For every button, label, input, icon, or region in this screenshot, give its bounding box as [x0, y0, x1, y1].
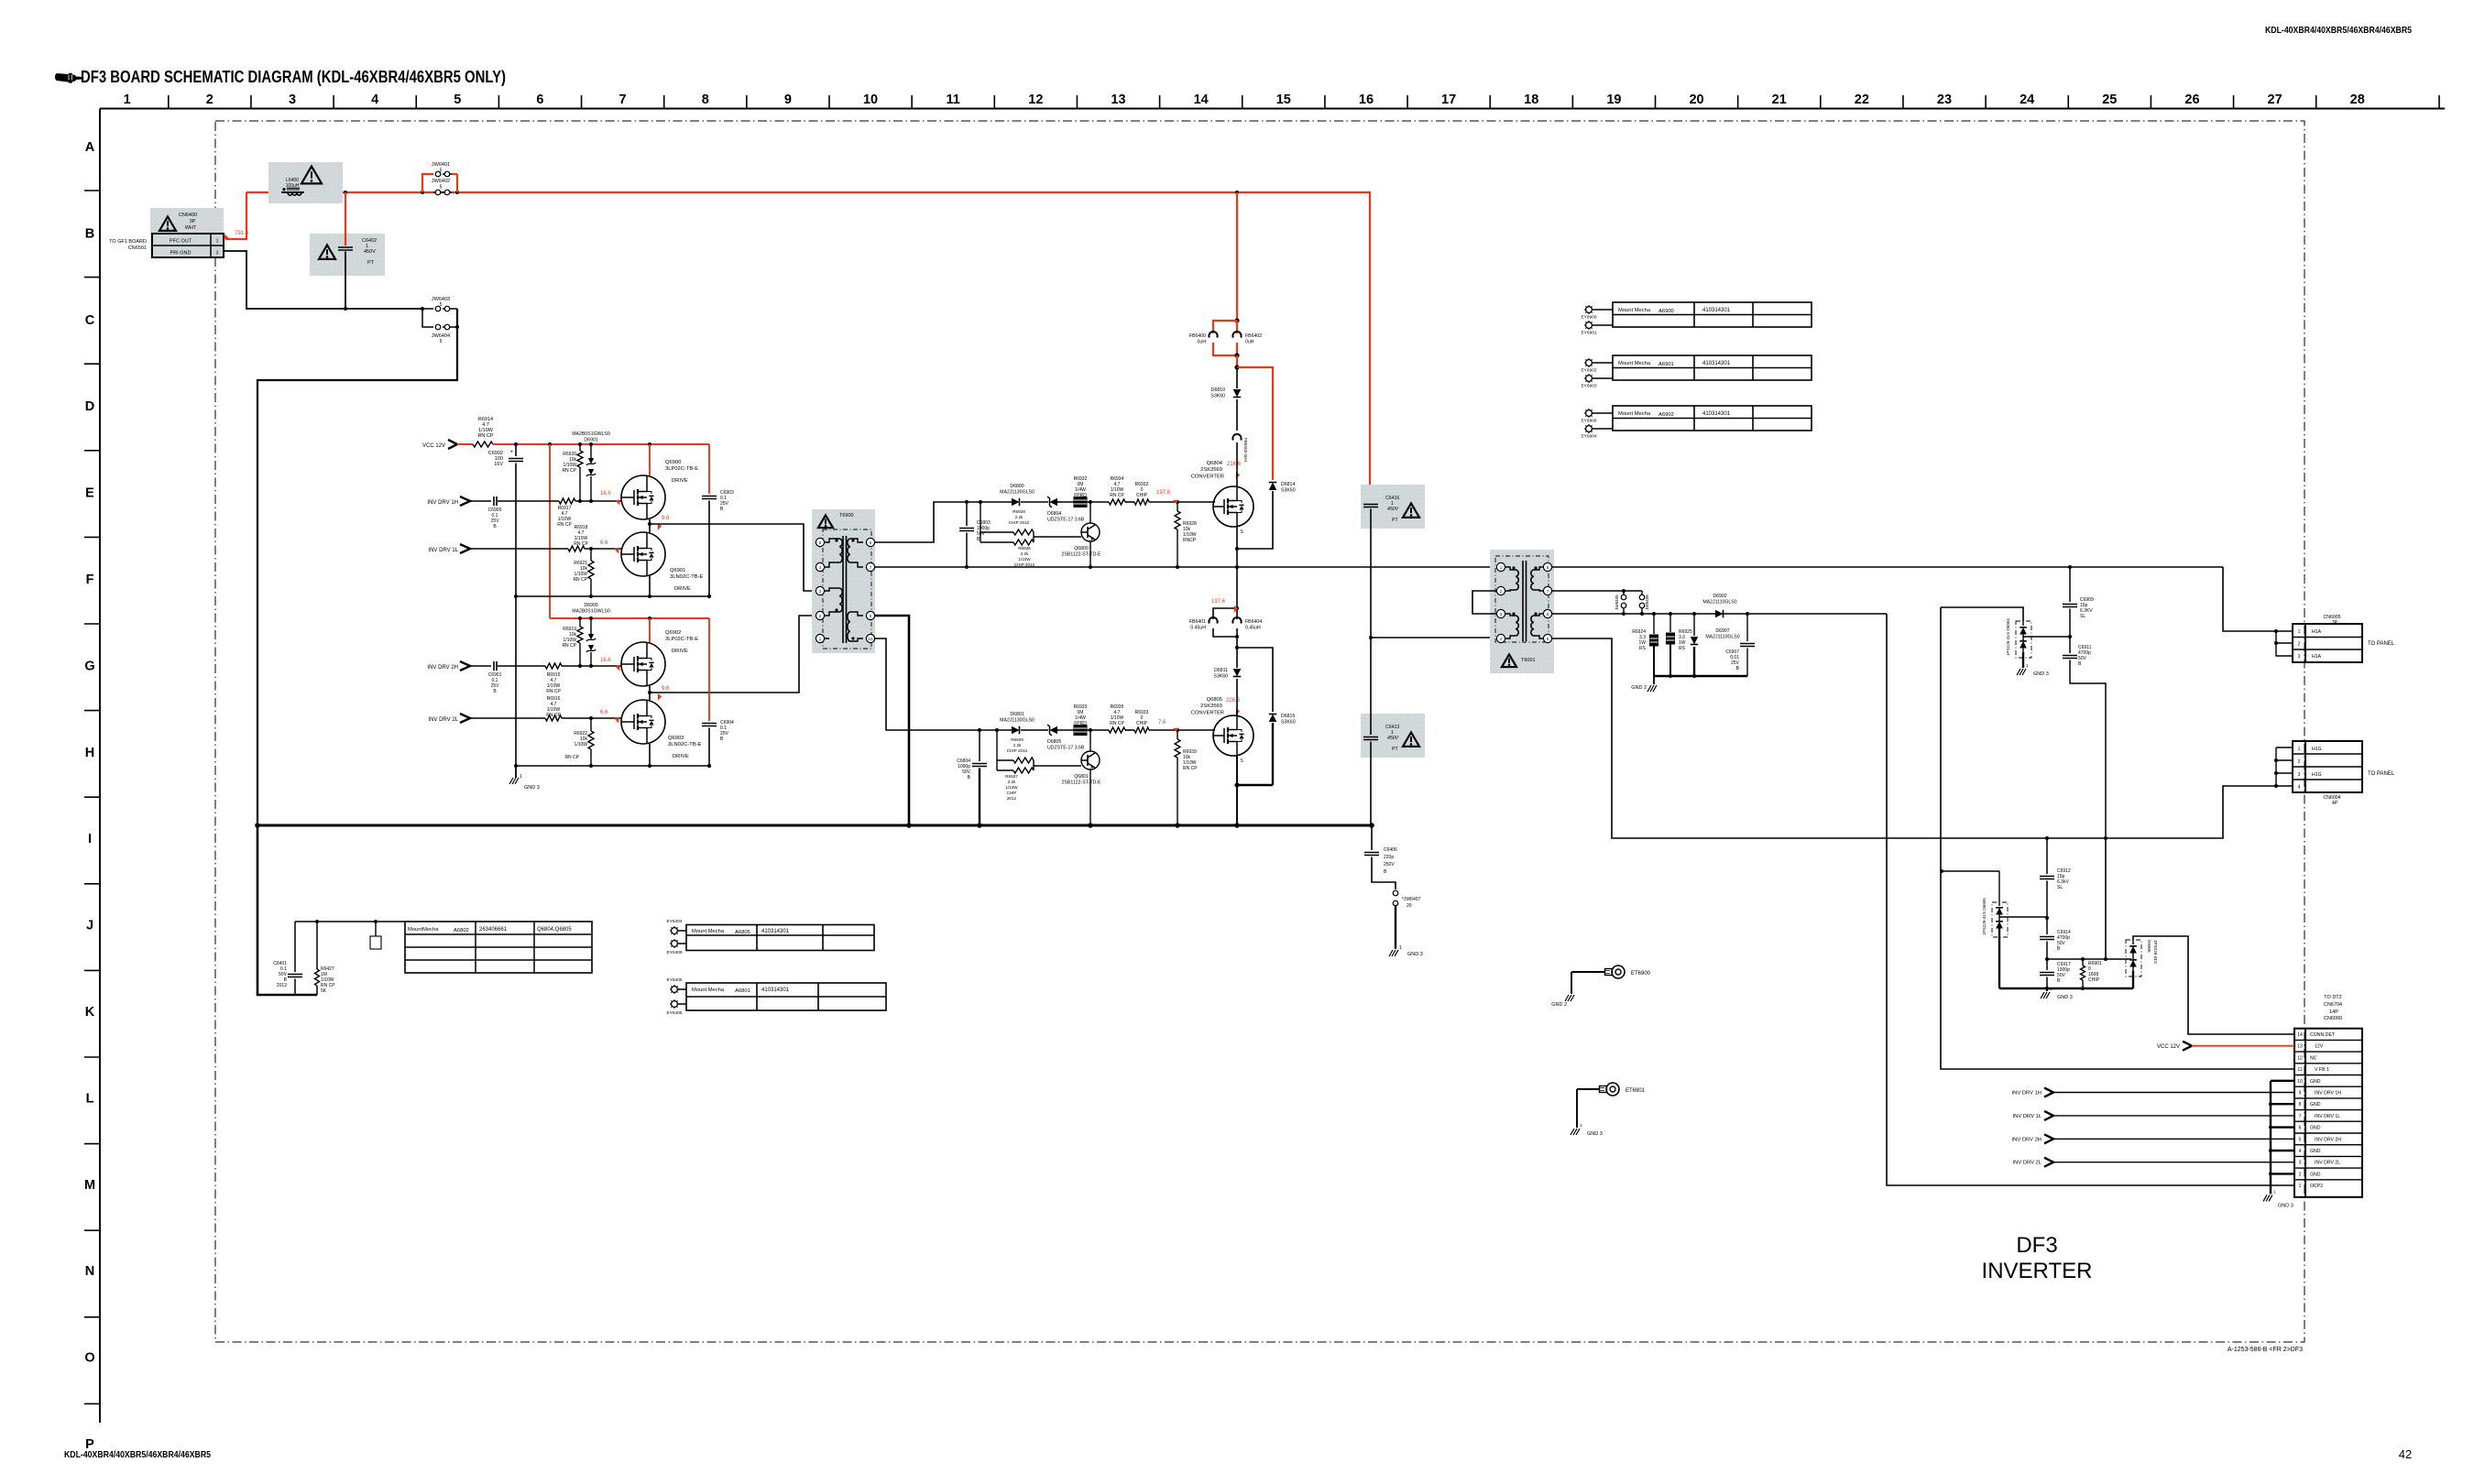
node bus/JW split [421, 191, 459, 194]
header model text top-right [2265, 26, 2412, 36]
svg-text:6.6: 6.6 [600, 710, 608, 715]
table Mount Mecha A6902 with EY6906/EY6904 [1581, 406, 1812, 440]
svg-text:TO PANEL: TO PANEL [2368, 641, 2395, 647]
svg-text:13: 13 [1111, 93, 1125, 107]
svg-text:EY6409: EY6409 [666, 950, 682, 955]
table Mount Mecha A6901 with EY6902/EY6903 [1581, 355, 1812, 389]
svg-text:VCC 12V: VCC 12V [422, 443, 445, 449]
svg-text:14: 14 [1194, 93, 1209, 107]
capacitor C6413 gray highlight [1361, 714, 1425, 758]
svg-text:10: 10 [2297, 1079, 2303, 1085]
node C6912/C6914 [2045, 916, 2049, 920]
svg-text:1PS226-31S D6905: 1PS226-31S D6905 [1982, 898, 1987, 935]
table Mount Mecha A6805 with EY6404/EY6409 [666, 919, 874, 955]
resistor R6915 [545, 663, 621, 694]
svg-text:CHIP 2012: CHIP 2012 [1007, 748, 1028, 753]
node C6914/C6917 [2045, 957, 2049, 961]
svg-text:26: 26 [2184, 93, 2199, 107]
warning triangle CN6400 [159, 216, 176, 230]
svg-text:CN6704: CN6704 [2324, 1002, 2342, 1008]
capacitor C6900 [488, 496, 559, 529]
svg-text:Q6902: Q6902 [665, 630, 681, 636]
svg-text:PT: PT [1392, 518, 1398, 523]
svg-text:H: H [85, 746, 94, 760]
svg-text:GND 2: GND 2 [1551, 1002, 1567, 1008]
svg-text:450V: 450V [1387, 736, 1399, 741]
schematic dash-dot border [215, 121, 2304, 1342]
node C6416 to T6001 pin4 [1369, 636, 1497, 639]
transistor Q6900 [621, 460, 698, 519]
table Mount Mecha A6900 with EY6900/EY6901 [1581, 302, 1812, 336]
transformer T6900 dashed outline [823, 529, 871, 649]
wire T6001 pin5 to CN6004 [1551, 638, 2276, 838]
resistor R6933 chip upper [1134, 482, 1149, 505]
svg-text:S3K60: S3K60 [1210, 394, 1225, 399]
svg-text:Mount Mecha: Mount Mecha [1618, 411, 1651, 417]
svg-text:KDL-40XBR4/40XBR5/46XBR4/46XBR: KDL-40XBR4/40XBR5/46XBR4/46XBR5 [2265, 26, 2412, 36]
diode D6815 [1237, 648, 1296, 785]
svg-text:6: 6 [2299, 1126, 2302, 1131]
svg-text:0.45uH: 0.45uH [1245, 626, 1261, 631]
svg-text:4: 4 [2298, 785, 2301, 791]
svg-text:H1A: H1A [2312, 629, 2322, 635]
inductor L6400 gray highlight [268, 162, 343, 203]
svg-text:5: 5 [440, 185, 443, 191]
svg-text:VCC 12V: VCC 12V [2157, 1044, 2180, 1050]
svg-text:RN CP: RN CP [1183, 766, 1198, 771]
svg-text:JW6402: JW6402 [432, 179, 450, 184]
svg-text:8: 8 [2299, 1102, 2302, 1108]
svg-text:3LN02C-TB-E: 3LN02C-TB-E [670, 574, 704, 580]
label CN6400 [179, 213, 197, 231]
red current 197.6 upper gate [1156, 490, 1179, 506]
transistor Q6903 [621, 700, 702, 759]
resistor R6922 [564, 718, 594, 766]
svg-text:3: 3 [2299, 1161, 2302, 1166]
svg-text:GND 3: GND 3 [1407, 952, 1423, 957]
fusible resistor R6933 [1074, 704, 1088, 736]
svg-text:NC: NC [2310, 1055, 2317, 1061]
svg-text:0.45uH: 0.45uH [1190, 626, 1206, 631]
svg-text:EY6900: EY6900 [1581, 315, 1596, 321]
svg-text:H1A: H1A [2312, 654, 2322, 660]
svg-text:GND 3: GND 3 [524, 785, 540, 791]
svg-text:3: 3 [2298, 772, 2301, 778]
svg-text:UDZSTE-17 3.6B: UDZSTE-17 3.6B [1047, 746, 1085, 751]
svg-text:J: J [86, 919, 93, 933]
zener pair D6901 [572, 431, 610, 501]
wire main ground rail [255, 823, 1374, 828]
label TO GF1 BOARD CN6501 [109, 239, 147, 251]
svg-text:TO PANEL: TO PANEL [2368, 771, 2395, 777]
fusible resistor R6932 [1074, 476, 1088, 507]
svg-text:D6810: D6810 [1211, 387, 1225, 393]
ferrite bead pair FB6401/FB6404 [1189, 567, 1262, 638]
ground GND 3 CN6000 [2263, 1189, 2293, 1208]
warning triangle L6400 [301, 167, 322, 184]
svg-text:INV DRV 2L: INV DRV 2L [2315, 1161, 2340, 1166]
svg-text:GND 2: GND 2 [1631, 685, 1647, 691]
VCC 12V input [422, 440, 473, 449]
svg-text:D: D [85, 399, 94, 414]
svg-text:*JW6407: *JW6407 [1402, 897, 1421, 902]
svg-text:2SK3569: 2SK3569 [1200, 467, 1222, 473]
ground GND 3 drive [509, 766, 540, 791]
wire lower chain [978, 728, 1215, 732]
svg-text:GND 3: GND 3 [2278, 1203, 2293, 1208]
svg-text:CONN DET: CONN DET [2310, 1032, 2336, 1038]
svg-text:20: 20 [1407, 903, 1412, 909]
svg-text:N: N [85, 1264, 94, 1279]
svg-text:P: P [85, 1437, 94, 1452]
svg-text:CHIP: CHIP [2088, 977, 2100, 983]
input INV DRV 1H to pin9 [2012, 1088, 2294, 1097]
svg-text:2.2k: 2.2k [1008, 780, 1016, 784]
svg-text:R6929: R6929 [1011, 737, 1024, 742]
svg-text:OCP2: OCP2 [2310, 1184, 2323, 1189]
svg-text:D6801: D6801 [1010, 712, 1024, 717]
svg-text:CONVERTER: CONVERTER [1191, 711, 1224, 716]
svg-text:2SK3569: 2SK3569 [1200, 704, 1222, 709]
svg-text:23: 23 [1937, 93, 1952, 107]
label Q6804 source S [1240, 529, 1243, 535]
warning triangle T6900 [818, 515, 833, 528]
inductor L6400 [281, 188, 304, 195]
svg-text:A6902: A6902 [1658, 412, 1674, 418]
resistor R6919 [562, 618, 583, 666]
diode D6903 vertical [1691, 614, 1740, 676]
svg-text:UDZSTE-17 3.6B: UDZSTE-17 3.6B [1047, 518, 1085, 523]
svg-text:EY6405: EY6405 [666, 977, 682, 983]
transistor Q6800 [1062, 502, 1101, 567]
svg-text:16: 16 [1359, 93, 1374, 107]
wire Q6903 source to rail [649, 744, 651, 766]
diode D6801 [1000, 712, 1034, 734]
svg-text:PT: PT [367, 260, 375, 266]
wire CN6004 feed crossing nodes [2045, 836, 2107, 840]
svg-text:EY6904: EY6904 [1581, 434, 1596, 440]
svg-text:WHT: WHT [185, 225, 197, 231]
resistor R6914 [473, 417, 494, 447]
wire Q6804 source node [1235, 527, 1239, 567]
connector CN6005 [2293, 615, 2362, 662]
svg-text:JW6406: JW6406 [1645, 595, 1649, 610]
resistor R6427 [315, 922, 336, 995]
svg-text:2SB1122-ST-TD-E: 2SB1122-ST-TD-E [1062, 552, 1101, 558]
svg-text:13: 13 [2297, 1044, 2303, 1050]
red current 16.6 upper [600, 491, 621, 506]
wire Q6900 source node [648, 519, 651, 532]
svg-text:PRI GND: PRI GND [170, 251, 192, 256]
capacitor C6911 [2063, 637, 2106, 838]
capacitor C6907 [1725, 614, 1755, 676]
svg-text:410314301: 410314301 [1702, 361, 1731, 366]
transformer T6001 gray highlight [1490, 550, 1554, 673]
svg-text:RN CP: RN CP [564, 755, 579, 760]
grid ruler top baseline [100, 108, 2445, 110]
jumper JW6406 [1639, 591, 1649, 614]
wire return to left rail [257, 309, 457, 825]
wire lower right ground rail [1999, 987, 2133, 990]
label TO DT2 CN6704 14P CN6000 [2324, 995, 2342, 1021]
wire red VCC 12V to pin13 [2157, 1042, 2294, 1051]
red current 7.6 lower gate [1158, 720, 1179, 734]
red current 197.6 node [1211, 599, 1239, 613]
svg-text:TO DT2: TO DT2 [2324, 995, 2341, 1000]
svg-text:INV DRV 1L: INV DRV 1L [2013, 1114, 2042, 1119]
svg-text:1: 1 [124, 93, 131, 107]
svg-text:D6907: D6907 [1715, 628, 1729, 634]
jumper JW6405 [1615, 591, 1626, 614]
svg-text:MA2B0S1GWLS0: MA2B0S1GWLS0 [572, 609, 610, 615]
svg-text:RN CP: RN CP [557, 522, 572, 528]
svg-text:CHIP: CHIP [1136, 493, 1148, 498]
svg-text:D6805: D6805 [1047, 739, 1061, 745]
svg-text:K: K [85, 1005, 95, 1020]
wire D6904 top to V FB line [1941, 607, 2023, 621]
svg-text:2: 2 [2298, 759, 2301, 765]
ferrite bead pair FB6400/FB6402 [1189, 192, 1262, 358]
svg-text:RN CP: RN CP [573, 577, 587, 583]
svg-text:S3K60: S3K60 [1213, 674, 1228, 680]
svg-text:2: 2 [2298, 642, 2301, 648]
svg-text:INV DRV 1H: INV DRV 1H [2315, 1091, 2341, 1097]
warning triangle C6413 [1403, 732, 1419, 746]
svg-text:INV DRV 2H: INV DRV 2H [2315, 1137, 2341, 1142]
connector CN6400 gray highlight [150, 208, 224, 258]
zener D6805 [1047, 725, 1085, 750]
svg-text:RN CP: RN CP [1110, 493, 1124, 498]
svg-text:D6800: D6800 [1010, 484, 1024, 489]
svg-text:GND: GND [2310, 1079, 2321, 1085]
input INV DRV 2L [428, 714, 545, 723]
svg-text:10: 10 [869, 637, 873, 641]
svg-text:EY6404: EY6404 [666, 919, 682, 924]
svg-text:H1G: H1G [2312, 747, 2322, 752]
label D6900 [572, 603, 610, 615]
resistor R6921 [573, 549, 594, 596]
svg-text:3P: 3P [190, 219, 196, 224]
wire D6905 mid node [1999, 916, 2047, 918]
capacitor C6912 [2040, 838, 2071, 916]
resistor R6917 [557, 498, 621, 528]
svg-text:1: 1 [2273, 1189, 2276, 1194]
svg-text:8: 8 [702, 93, 709, 107]
wire upper chain [965, 500, 1215, 504]
transformer T6900 pins [816, 538, 874, 642]
svg-text:INV DRV 1H: INV DRV 1H [427, 500, 458, 506]
svg-text:D6804: D6804 [1047, 511, 1061, 517]
svg-text:GND: GND [2310, 1149, 2321, 1154]
svg-text:216.6: 216.6 [1227, 462, 1242, 467]
ground GND 3 lower right [2041, 987, 2073, 1000]
dual diode D6906 [2126, 940, 2158, 977]
svg-text:Q6903: Q6903 [668, 736, 684, 741]
svg-text:O: O [84, 1351, 94, 1366]
svg-text:1/10W: 1/10W [575, 742, 588, 747]
svg-text:5: 5 [2299, 1137, 2302, 1142]
svg-text:A6805: A6805 [735, 930, 750, 935]
transformer T6001 windings [1505, 566, 1544, 638]
svg-text:T6001: T6001 [1521, 658, 1536, 663]
svg-text:1/10W: 1/10W [1005, 785, 1018, 790]
wire red VCC rail [493, 442, 709, 446]
input INV DRV 1L to pin7 [2013, 1111, 2294, 1120]
svg-text:S3K60: S3K60 [1281, 488, 1296, 494]
svg-text:410314301: 410314301 [1702, 411, 1731, 417]
input INV DRV 2H [427, 661, 491, 671]
svg-text:6: 6 [536, 93, 543, 107]
DF3 INVERTER label [1982, 1233, 2093, 1283]
svg-text:5: 5 [440, 339, 443, 344]
svg-text:MountMecha: MountMecha [408, 927, 439, 933]
resistor R6934 [1109, 476, 1125, 505]
capacitor C6903 [702, 444, 734, 598]
grid row letters [84, 140, 95, 1452]
grid column tick marks [169, 95, 2439, 109]
connector CN6400 body [152, 234, 224, 257]
svg-text:2012: 2012 [277, 983, 287, 988]
wire R6924 group bottom rail [1654, 674, 1747, 678]
wire Q6901 source to rail [649, 576, 651, 596]
svg-text:1: 1 [2299, 1184, 2302, 1189]
svg-text:D6902: D6902 [1713, 594, 1726, 599]
svg-text:Q6801: Q6801 [1074, 774, 1089, 780]
wire Q6902 drain [649, 618, 651, 642]
diode D6811 [1213, 637, 1241, 715]
svg-text:18: 18 [1524, 93, 1538, 107]
svg-text:INV DRV 2H: INV DRV 2H [427, 665, 458, 671]
svg-text:D6906: D6906 [2147, 940, 2151, 953]
capacitor C6803 [959, 502, 991, 567]
capacitor C6402 [338, 192, 377, 309]
svg-text:16V: 16V [494, 462, 503, 467]
svg-text:5: 5 [454, 93, 461, 107]
svg-text:L: L [86, 1091, 94, 1106]
svg-text:T6900: T6900 [839, 513, 854, 518]
ground GND 2 ET6900 [1551, 972, 1574, 1008]
svg-text:MA2B0S1GWLS0: MA2B0S1GWLS0 [572, 431, 610, 437]
footer model text bottom-left [64, 1450, 211, 1460]
transistor Q6805 converter [1191, 697, 1253, 756]
svg-text:FB6401: FB6401 [1189, 619, 1206, 625]
svg-text:410314301: 410314301 [1702, 308, 1731, 313]
node bus/C6402 [344, 191, 347, 194]
svg-text:3LP02C-TB-E: 3LP02C-TB-E [665, 637, 698, 642]
svg-text:MA2J1110GLS0: MA2J1110GLS0 [1705, 635, 1739, 640]
wire pin6 chain to OCP2 [1887, 614, 2294, 1185]
wire red branch to lower drive [550, 444, 709, 620]
transformer T6001 core [1523, 561, 1527, 641]
wire table feed [295, 920, 405, 923]
svg-text:A6901: A6901 [1658, 362, 1674, 367]
capacitor C6804 [957, 730, 987, 825]
warning triangle T6001 [1502, 654, 1516, 667]
svg-text:DF3: DF3 [2016, 1233, 2057, 1258]
svg-text:GND 3: GND 3 [2033, 671, 2049, 677]
label Q6805 source S [1240, 758, 1243, 764]
capacitor C6416 gray highlight [1361, 485, 1425, 529]
svg-text:CN6400: CN6400 [179, 213, 197, 218]
capacitor C6406 [1364, 825, 1397, 889]
svg-text:MA2J1130GLS0: MA2J1130GLS0 [1000, 718, 1034, 724]
jumper JW6404 [422, 309, 459, 344]
svg-text:A: A [85, 140, 95, 155]
svg-text:2SB1122-ST-TD-E: 2SB1122-ST-TD-E [1062, 780, 1101, 786]
svg-text:RN CP: RN CP [1110, 721, 1124, 726]
svg-text:INV DRV 1L: INV DRV 1L [2315, 1114, 2340, 1119]
wire Q6900 drain [649, 444, 651, 475]
svg-text:RN CP: RN CP [477, 433, 493, 439]
svg-text:2.2k: 2.2k [1013, 743, 1022, 747]
transistor Q6801 [1062, 730, 1101, 825]
svg-text:D6815: D6815 [1281, 714, 1295, 719]
transistor Q6901 [621, 532, 704, 592]
svg-text:+: + [509, 450, 513, 455]
wire Q6902 source node [648, 686, 651, 700]
svg-text:GND: GND [2310, 1126, 2321, 1131]
svg-text:A-1253-586-B <FR 2>DF3: A-1253-586-B <FR 2>DF3 [2228, 1347, 2303, 1353]
warning triangle C6416 [1403, 503, 1419, 517]
wire D6906 top to CONN DET [2133, 936, 2294, 1034]
wire T6900 pin9 to ground rail [874, 616, 909, 825]
input INV DRV 1H [427, 496, 491, 506]
resistors R6929/R6937 base network [997, 730, 1081, 801]
label T6900 [839, 513, 854, 518]
svg-text:791.0: 791.0 [235, 231, 249, 236]
svg-text:INV DRV 1H: INV DRV 1H [2012, 1091, 2042, 1097]
transformer T6900 gray highlight [812, 509, 875, 653]
svg-text:A6900: A6900 [1658, 309, 1674, 314]
capacitor C6901 [488, 661, 545, 694]
svg-text:7: 7 [619, 93, 627, 107]
svg-text:Mount Mecha: Mount Mecha [692, 929, 725, 934]
diode D6814 [1237, 482, 1296, 549]
svg-text:Q6805: Q6805 [1207, 697, 1222, 703]
svg-text:INVERTER: INVERTER [1982, 1259, 2093, 1283]
wire PRI GND return [224, 251, 422, 309]
svg-text:DF3 BOARD SCHEMATIC DIAGRAM (K: DF3 BOARD SCHEMATIC DIAGRAM (KDL-46XBR4/… [81, 68, 506, 86]
svg-text:22: 22 [1855, 93, 1869, 107]
svg-text:12V: 12V [2315, 1044, 2324, 1050]
svg-text:CHIP: CHIP [1007, 791, 1017, 795]
svg-text:410314301: 410314301 [761, 988, 790, 993]
svg-text:25: 25 [2102, 93, 2117, 107]
svg-text:197.6: 197.6 [1156, 490, 1171, 496]
svg-text:MA2J1110GLS0: MA2J1110GLS0 [1702, 600, 1736, 606]
diode D6810 [1210, 367, 1241, 431]
svg-text:D6900: D6900 [584, 603, 597, 608]
svg-text:11: 11 [2297, 1067, 2302, 1073]
label TO PANEL lower [2368, 771, 2395, 777]
svg-text:Q6804,Q6805: Q6804,Q6805 [537, 927, 572, 933]
svg-text:M: M [84, 1178, 95, 1193]
svg-text:RN CP: RN CP [574, 541, 588, 547]
svg-text:12: 12 [1028, 93, 1043, 107]
wire CN6004 pin ties [2274, 747, 2293, 788]
transformer T6900 windings [824, 539, 863, 641]
wire red PFC OUT riser [225, 192, 246, 239]
svg-text:21: 21 [1772, 93, 1787, 107]
svg-text:2: 2 [206, 93, 213, 107]
svg-text:Mount Mecha: Mount Mecha [1618, 361, 1651, 366]
dual diode D6905 [1982, 871, 2008, 988]
capacitor C6416 [1363, 496, 1399, 638]
svg-text:17: 17 [1441, 93, 1456, 107]
grid column numbers [124, 93, 2365, 107]
wire to T6900 pin3 [650, 524, 816, 591]
svg-text:1PS226-31S D6904: 1PS226-31S D6904 [2006, 618, 2010, 656]
